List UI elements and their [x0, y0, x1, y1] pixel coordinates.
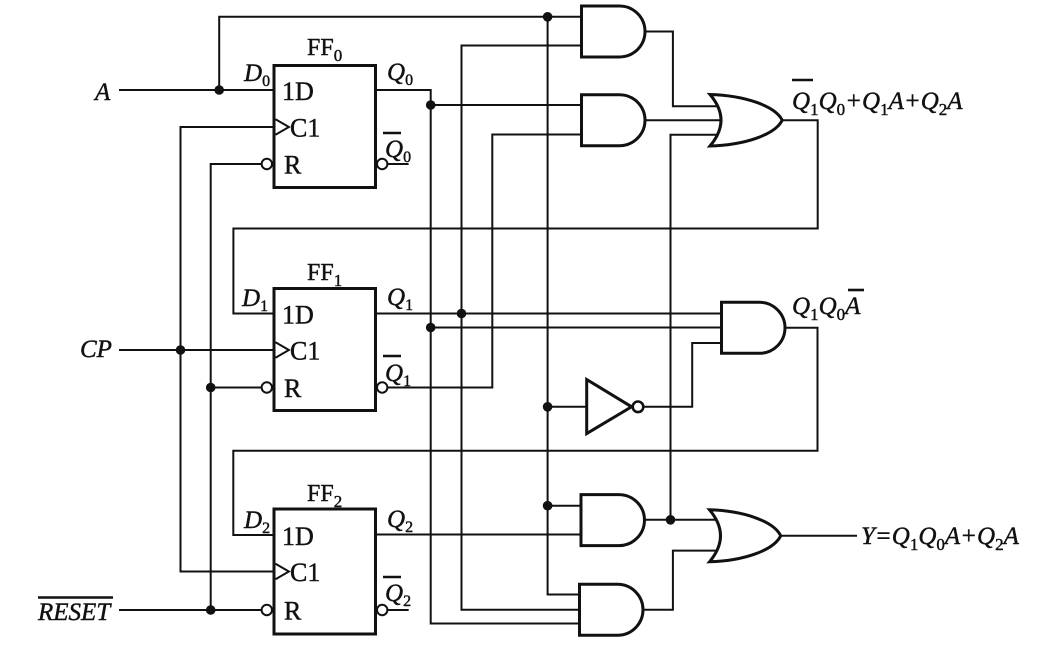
or-gate G6 (first sum output): [710, 95, 782, 147]
wire inverter output to AND5 bottom input: [644, 343, 722, 407]
junction node Q0 to AND5: [426, 323, 436, 333]
svg-text:D2: D2: [243, 507, 270, 537]
svg-text:1D: 1D: [282, 301, 314, 330]
flip-flop FF0 box: [274, 66, 376, 188]
wire Q-bar-0 stub: [388, 163, 408, 165]
svg-text:RESET: RESET: [37, 599, 112, 626]
FF0 Q-bar bubble: [377, 159, 387, 169]
FF1 reset bubble: [262, 382, 272, 392]
overline of Q-bar-0: [383, 132, 401, 135]
svg-text:D0: D0: [243, 60, 270, 90]
svg-text:FF0: FF0: [307, 35, 342, 65]
wire Q2 output from FF2 to AND3 bottom input: [377, 534, 581, 536]
and-gate G1 (Q1·A): [582, 6, 646, 57]
overline of A in expression 2: [848, 289, 864, 292]
svg-text:Y=Q1Q0A+Q2A: Y=Q1Q0A+Q2A: [861, 523, 1020, 554]
overline of first Q in expression 1: [792, 79, 813, 82]
FF1 Q-bar bubble: [377, 382, 387, 392]
and-gate G3 (Q2·A): [581, 495, 644, 546]
FF2 clock triangle: [276, 564, 289, 580]
svg-text:R: R: [284, 374, 302, 403]
wire A input to D0: [120, 89, 273, 91]
wire AND2 output to OR1 middle input: [645, 119, 719, 121]
wire AND4 output to OR2 bottom input: [643, 551, 719, 610]
wire AND3 output to OR2 top input: [645, 519, 719, 521]
svg-text:FF1: FF1: [307, 260, 342, 290]
wire Q0 branch to AND2 top input: [431, 104, 582, 106]
svg-text:Q1: Q1: [387, 284, 413, 314]
svg-text:A: A: [93, 79, 111, 106]
wire A branch to inverter input: [548, 406, 587, 408]
wire CP bus vertical to FF0 C1 and FF2 C1: [181, 127, 273, 572]
wire Q-bar-1 bus to AND2 bottom input: [388, 135, 582, 388]
wire RESET input to FF2 R: [120, 609, 262, 611]
svg-text:R: R: [284, 151, 302, 180]
svg-text:CP: CP: [80, 336, 112, 363]
wire A bus vertical from top rail to AND4 top input: [548, 17, 580, 595]
junction node RESET line: [206, 605, 216, 615]
and-gate G2 (Qbar1·Q0): [582, 95, 646, 146]
and-gate G4 (Q1·Q0·A): [580, 584, 644, 635]
overline of Q-bar-2: [383, 576, 401, 579]
wire AND5 output feedback to D2: [233, 328, 817, 535]
flip-flop FF1 box: [274, 289, 376, 411]
svg-text:C1: C1: [290, 558, 320, 587]
FF0 reset bubble: [262, 159, 272, 169]
svg-text:Q1Q0A: Q1Q0A: [792, 293, 861, 324]
svg-text:Q1: Q1: [385, 360, 411, 390]
wire Y output from OR2: [781, 535, 856, 537]
svg-text:C1: C1: [290, 114, 320, 143]
inverter / NOT gate: [587, 380, 632, 434]
svg-text:D1: D1: [241, 285, 268, 315]
junction node Q0 to AND2: [426, 100, 436, 110]
wire A up from junction to top rail: [219, 17, 581, 90]
wire AND3 output branch up to OR1 bottom input: [671, 135, 720, 520]
svg-text:1D: 1D: [282, 522, 314, 551]
junction node Q1 line: [457, 309, 467, 319]
svg-text:R: R: [284, 597, 302, 626]
wire RESET branch to FF1 R: [211, 387, 262, 389]
FF2 reset bubble: [262, 605, 272, 615]
junction node CP line: [176, 345, 186, 355]
flip-flop FF2 box: [274, 509, 376, 634]
overline of RESET: [38, 596, 113, 599]
or-gate G7 (Y output): [710, 510, 781, 562]
svg-text:Q0: Q0: [387, 59, 413, 89]
wire CP input to FF1 C1: [120, 349, 273, 351]
junction node on A line: [214, 85, 224, 95]
wire OR1 output feedback to D1: [233, 120, 817, 313]
wire Q0 branch to AND5 middle input: [431, 327, 722, 329]
junction node A top rail: [543, 12, 553, 22]
junction node AND3 output: [666, 515, 676, 525]
FF0 clock triangle: [276, 119, 289, 135]
junction node RESET to FF1: [206, 383, 216, 393]
svg-text:Q1Q0+Q1A+Q2A: Q1Q0+Q1A+Q2A: [792, 88, 963, 119]
inverter output bubble: [633, 402, 644, 413]
wire Q1 bus vertical to AND4 middle input: [462, 46, 580, 610]
wire Q0 output from FF0 down the Q0 bus to AND4 bottom input: [377, 90, 580, 624]
overline of Q-bar-1: [383, 355, 401, 358]
junction node A to AND3: [543, 501, 553, 511]
wire Q1 bus into AND1 bottom input: [462, 45, 582, 47]
svg-text:1D: 1D: [282, 77, 314, 106]
wire A branch to AND3 top input: [548, 505, 581, 507]
FF2 Q-bar bubble: [377, 605, 387, 615]
svg-text:FF2: FF2: [307, 481, 342, 511]
junction node A to inverter: [543, 402, 553, 412]
wire Q1 output from FF1 to AND5 top input: [377, 313, 722, 315]
wire RESET bus vertical to FF0 R: [211, 164, 262, 610]
svg-text:C1: C1: [290, 337, 320, 366]
svg-text:Q0: Q0: [385, 136, 411, 166]
wire AND1 output to OR1 top input: [645, 32, 719, 107]
wire Q-bar-2 stub: [388, 609, 408, 611]
FF1 clock triangle: [276, 342, 289, 358]
and-gate G5 (Q1·Q0·Abar): [722, 302, 786, 353]
svg-text:Q2: Q2: [387, 506, 413, 536]
svg-text:Q2: Q2: [385, 580, 411, 610]
